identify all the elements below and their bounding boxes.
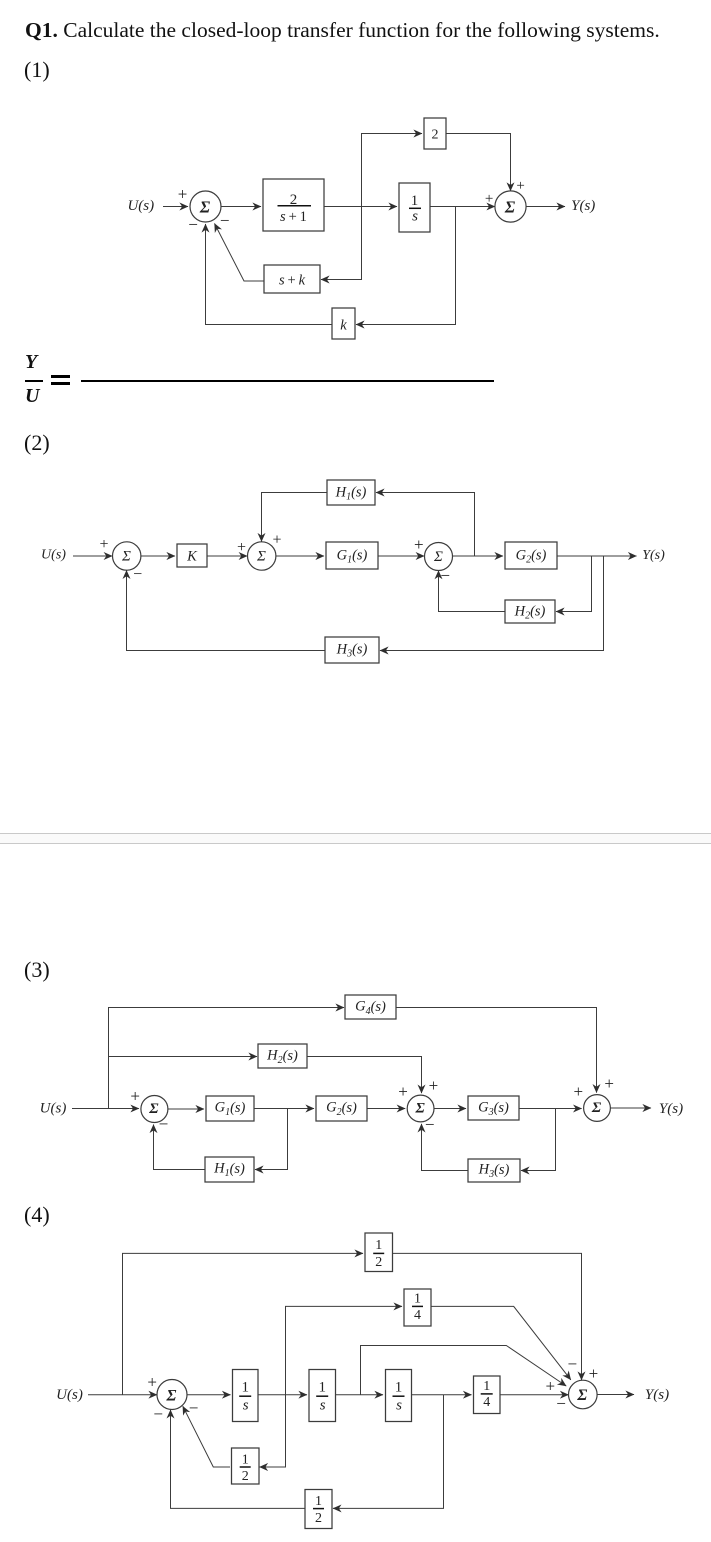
block B2 integrator 1/s [399, 183, 430, 232]
op SE summing junction [407, 1095, 434, 1122]
svg-text:Σ: Σ [576, 1387, 587, 1404]
wire SH to Y(s) output d4 [597, 1394, 634, 1396]
svg-text:+: + [485, 191, 493, 207]
svg-text:H2(s): H2(s) [266, 1048, 298, 1066]
svg-text:Σ: Σ [591, 1100, 602, 1116]
wire B1 to block B2 with junction node A [324, 206, 397, 208]
block K [177, 544, 207, 567]
wire G1 to G2 with junction node G [254, 1108, 314, 1110]
block I3 integrator 1/s [386, 1370, 412, 1422]
wire node H down to block H3 d3 [521, 1109, 556, 1171]
wire node F up to block H2 d3 [109, 1056, 258, 1058]
wire I1 to I2 with junction node K [258, 1394, 307, 1396]
wire G4 to SF top [396, 1008, 597, 1093]
svg-text:s: s [320, 1398, 326, 1414]
svg-text:Σ: Σ [414, 1101, 425, 1117]
minus sign at S1 bottom input [188, 215, 198, 234]
block B7 gain 1/2 top [365, 1233, 393, 1272]
plus sign at SG left input [147, 1372, 157, 1391]
svg-text:−: − [153, 1405, 163, 1424]
svg-text:+: + [429, 1076, 439, 1095]
svg-text:2: 2 [242, 1469, 249, 1484]
block I1 integrator 1/s [233, 1370, 259, 1422]
wire H1 to SD bottom [154, 1125, 206, 1170]
wire B3 to S2 top [446, 134, 511, 191]
svg-text:−: − [440, 566, 450, 585]
svg-text:+: + [516, 178, 524, 194]
wire node A down to block B5 (s+k) [321, 207, 362, 280]
svg-text:4: 4 [483, 1395, 490, 1410]
svg-text:U(s): U(s) [41, 548, 66, 563]
block H2(s) d2 [505, 600, 555, 623]
svg-text:2: 2 [375, 1255, 382, 1270]
wire S2 to Y(s) output [526, 206, 565, 208]
formula Y/U denominator U [25, 386, 39, 406]
svg-text:G3(s): G3(s) [478, 1100, 509, 1118]
wire node K up to gain B8 (1/4 feedforward) [286, 1306, 403, 1394]
wire SE to block G3 [434, 1108, 466, 1110]
formula Y/U numerator Y [25, 352, 37, 372]
block B9 gain 1/2 middle [232, 1448, 260, 1484]
wire node F up to block G4 [109, 1008, 345, 1109]
wire node E down to block H3 [380, 556, 604, 651]
svg-text:G2(s): G2(s) [326, 1100, 357, 1118]
svg-text:G1(s): G1(s) [215, 1100, 246, 1118]
svg-text:s + 1: s + 1 [280, 209, 307, 225]
svg-text:1: 1 [395, 1380, 403, 1396]
plus sign at SH left input [546, 1377, 556, 1396]
block H2(s) d3 [258, 1044, 307, 1068]
block B8 gain 1/4 feedforward [404, 1289, 431, 1326]
svg-text:Σ: Σ [504, 197, 516, 216]
svg-text:H3(s): H3(s) [478, 1162, 510, 1180]
equals sign top bar [51, 375, 70, 378]
svg-text:2: 2 [315, 1511, 322, 1526]
op S2 summing junction [495, 191, 526, 222]
block B10 gain 1/2 bottom [305, 1490, 332, 1529]
wire I2 to I3 with junction node L [336, 1394, 383, 1396]
wire H2 to SE top [307, 1057, 422, 1094]
svg-text:+: + [130, 1087, 140, 1106]
svg-text:1: 1 [414, 1291, 421, 1306]
svg-text:+: + [589, 1364, 599, 1383]
op SH summing junction [569, 1380, 598, 1409]
block I2 integrator 1/s [309, 1370, 336, 1422]
svg-text:1: 1 [411, 193, 419, 209]
svg-text:G4(s): G4(s) [355, 999, 386, 1017]
block G2(s) d3 [316, 1096, 367, 1121]
wire SB to block G1 [276, 555, 324, 557]
label (1) [24, 57, 50, 83]
wire G2 to Y(s) output with junction nodes D and E [557, 555, 637, 557]
svg-text:H1(s): H1(s) [213, 1161, 245, 1179]
plus sign at SA left input [99, 536, 108, 553]
block G3(s) d3 [468, 1096, 519, 1120]
svg-text:+: + [546, 1377, 556, 1396]
svg-text:−: − [556, 1394, 566, 1413]
plus sign at SF left input [574, 1082, 584, 1101]
wire B8 diagonal to SH upper-left [431, 1306, 571, 1379]
wire U(s) to summing junction SA [73, 555, 112, 557]
op SG summing junction [157, 1380, 187, 1410]
block B1 2/(s+1) [263, 179, 324, 231]
svg-text:1: 1 [242, 1453, 249, 1468]
block G1(s) d2 [326, 542, 378, 569]
svg-text:Σ: Σ [148, 1101, 159, 1117]
svg-text:−: − [220, 211, 230, 230]
svg-text:s: s [243, 1398, 249, 1414]
svg-text:+: + [574, 1082, 584, 1101]
label (2) [24, 430, 50, 456]
plus sign at SE left input [398, 1082, 408, 1101]
wire SD to block G1 d3 [168, 1108, 204, 1110]
svg-text:1: 1 [315, 1494, 322, 1509]
svg-text:1: 1 [375, 1238, 382, 1253]
svg-text:s: s [412, 209, 418, 225]
wire H2 to SC bottom [439, 571, 506, 612]
minus sign at SA bottom input [133, 566, 142, 583]
wire B6 to summing junction SH [500, 1394, 569, 1396]
svg-text:G2(s): G2(s) [516, 547, 547, 565]
minus sign at SC bottom input [440, 566, 450, 585]
op SB summing junction [248, 542, 276, 570]
wire H3 to SA bottom [127, 570, 326, 650]
minus sign at SG bottom input [153, 1405, 163, 1424]
op SF summing junction [584, 1095, 611, 1122]
svg-text:U(s): U(s) [127, 198, 154, 214]
block G4(s) d3 [345, 995, 396, 1019]
block B3 gain 2 [424, 118, 446, 149]
svg-text:+: + [398, 1082, 408, 1101]
svg-text:k: k [340, 318, 347, 334]
svg-text:Σ: Σ [121, 549, 131, 565]
plus sign at S1 left input [178, 185, 188, 204]
wire SF to Y(s) output d3 [610, 1107, 651, 1109]
node Y(s) output label d3 [659, 1101, 683, 1117]
minus sign at SD bottom input [159, 1114, 169, 1133]
wire B10 to SG bottom [171, 1410, 306, 1509]
block G2(s) d2 [505, 542, 557, 569]
svg-text:Y(s): Y(s) [642, 548, 665, 563]
node U(s) input label d3 [40, 1101, 67, 1117]
svg-text:−: − [568, 1355, 578, 1374]
svg-text:4: 4 [414, 1308, 421, 1323]
wire node A up to block B3 (gain 2) [362, 134, 423, 207]
block B6 gain 1/4 [474, 1376, 501, 1414]
wire node G down to block H1 d3 [255, 1109, 288, 1170]
wire I3 to gain B6 with junction node M [412, 1394, 472, 1396]
svg-text:H1(s): H1(s) [335, 484, 367, 502]
op SD summing junction [141, 1096, 168, 1123]
svg-text:+: + [99, 536, 108, 553]
svg-text:+: + [272, 532, 281, 549]
wire B9 diagonal to SG lower-right [183, 1406, 230, 1467]
plus sign at SB left input [237, 539, 246, 556]
svg-text:−: − [425, 1115, 435, 1134]
svg-text:Σ: Σ [433, 549, 443, 565]
node U(s) input label d4 [56, 1387, 83, 1403]
plus sign at SF top input [604, 1074, 614, 1093]
svg-text:1: 1 [483, 1379, 490, 1394]
equals sign bottom bar [51, 382, 70, 385]
wire B7 to SH top [393, 1253, 582, 1380]
wire S1 to block B1 [221, 206, 261, 208]
node U(s) input label d2 [41, 548, 66, 563]
wire K to summing junction SB [207, 555, 247, 557]
page divider [0, 833, 711, 844]
wire H3 to SE bottom [422, 1124, 469, 1171]
node Y(s) output label d4 [645, 1387, 669, 1403]
wire SG to integrator I1 [187, 1394, 231, 1396]
svg-text:1: 1 [318, 1380, 326, 1396]
formula fraction bar [25, 380, 43, 382]
wire G2 to summing junction SE [367, 1108, 405, 1110]
svg-text:Σ: Σ [256, 549, 266, 565]
wire node M down to gain B10 (1/2 bottom) [333, 1395, 444, 1509]
wire node J up to gain B7 (1/2 top) [123, 1253, 364, 1394]
plus sign at S2 left input [485, 191, 493, 207]
svg-text:+: + [147, 1372, 157, 1391]
op S1 summing junction [190, 191, 221, 222]
svg-text:+: + [178, 185, 188, 204]
node Y(s) output label [571, 198, 595, 214]
svg-text:2: 2 [432, 128, 439, 143]
title [25, 18, 660, 43]
svg-text:−: − [159, 1114, 169, 1133]
svg-text:Y(s): Y(s) [659, 1101, 683, 1117]
plus sign at S2 top input [516, 178, 524, 194]
svg-text:s + k: s + k [279, 273, 306, 289]
block B4 gain k [332, 308, 355, 339]
block B5 s+k [264, 265, 320, 293]
block H3(s) d3 [468, 1159, 520, 1182]
wire B4 to S1 bottom [206, 224, 333, 325]
svg-text:−: − [188, 215, 198, 234]
svg-text:K: K [186, 548, 198, 564]
minus sign at SE bottom input [425, 1115, 435, 1134]
svg-text:+: + [414, 535, 424, 554]
label (3) [24, 957, 50, 983]
svg-text:Y(s): Y(s) [645, 1387, 669, 1403]
svg-text:+: + [604, 1074, 614, 1093]
plus sign at SH top-right input [589, 1364, 599, 1383]
block G1(s) d3 [206, 1096, 254, 1121]
svg-text:H2(s): H2(s) [514, 603, 546, 621]
minus sign at S1 diagonal input [220, 211, 230, 230]
svg-text:Y(s): Y(s) [571, 198, 595, 214]
node Y(s) output label d2 [642, 548, 665, 563]
wire node L up and diagonal to SH upper-left [361, 1346, 567, 1395]
block H1(s) d3 [205, 1157, 254, 1182]
svg-text:H3(s): H3(s) [336, 642, 368, 660]
plus sign at SE top input [429, 1076, 439, 1095]
plus sign at SB top input [272, 532, 281, 549]
svg-text:U(s): U(s) [40, 1101, 67, 1117]
minus sign at SH lower-left input [556, 1394, 566, 1413]
svg-text:−: − [133, 566, 142, 583]
svg-text:+: + [237, 539, 246, 556]
wire SA to block K [141, 555, 175, 557]
svg-text:G1(s): G1(s) [337, 547, 368, 565]
block H3(s) d2 [325, 637, 379, 663]
svg-text:s: s [396, 1398, 402, 1414]
wire G1 to summing junction SC [378, 555, 424, 557]
svg-text:Σ: Σ [199, 197, 211, 216]
plus sign at SC left input [414, 535, 424, 554]
plus sign at SD left input [130, 1087, 140, 1106]
minus sign at SH top input [568, 1355, 578, 1374]
wire node C up to block H1 [376, 493, 475, 557]
svg-text:Σ: Σ [166, 1387, 177, 1404]
block H1(s) d2 [327, 480, 375, 505]
svg-text:1: 1 [241, 1380, 249, 1396]
answer blank line [81, 380, 494, 382]
wire B5 to S1 diagonal input [215, 224, 265, 282]
svg-text:U(s): U(s) [56, 1387, 83, 1403]
wire node D down to block H2 [556, 556, 592, 612]
op SA summing junction [113, 542, 141, 570]
wire node B down to block B4 (gain k) [356, 207, 456, 325]
wire G3 to summing junction SF with junction node H [519, 1108, 582, 1110]
wire node K down to gain B9 (1/2 middle) [260, 1395, 286, 1467]
op SC summing junction [425, 543, 453, 571]
wire U(s) to summing junction S1 [163, 206, 188, 208]
svg-text:−: − [189, 1399, 199, 1418]
wire U(s) to summing junction SG with junction node J [88, 1394, 157, 1396]
node U(s) input label [127, 198, 154, 214]
label (4) [24, 1202, 50, 1228]
minus sign at SG diagonal input [189, 1399, 199, 1418]
wire B2 to summing junction S2 with junction node B [430, 206, 495, 208]
wire U(s) to summing junction SD with junction node F [72, 1108, 139, 1110]
wire SC to block G2 with junction node C [453, 555, 503, 557]
wire H1 to SB top [262, 493, 328, 542]
